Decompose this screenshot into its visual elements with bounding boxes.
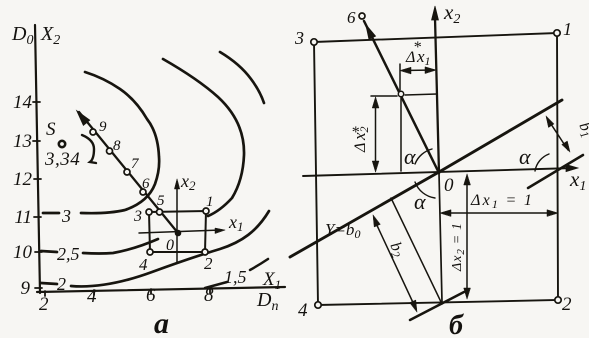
short parallel segment at bottom edge [410,292,464,320]
label b1 (rotated) [574,120,589,141]
contour line 3 [43,72,159,213]
extension vline at x=400 [400,64,401,171]
vertical axis ticks [33,102,42,288]
svg-text:0: 0 [166,237,174,254]
svg-text:9: 9 [99,119,107,135]
x2 axis arrowhead [432,6,439,20]
svg-text:α: α [414,189,426,214]
svg-text:x1: x1 [416,47,431,68]
rectangle corner circles [146,208,209,255]
horizontal axis ticks [45,288,210,296]
contour line 2 [41,211,269,286]
dim line delta*x2 [375,101,377,169]
b1 dimension line [547,118,568,150]
contour fragment innermost top-right [220,52,264,103]
svg-text:10: 10 [13,242,33,263]
svg-text:*: * [351,124,359,141]
svg-text:4: 4 [298,300,308,321]
left plot horizontal axis Dn/X1 [37,287,285,292]
angle arc alpha right [535,154,549,171]
svg-text:Δ: Δ [352,143,369,153]
svg-text:5: 5 [157,193,165,209]
dim line delta x1=1 [443,212,555,214]
center point 0 [175,230,181,236]
svg-text:7: 7 [131,156,140,172]
svg-text:2,5: 2,5 [57,244,80,264]
design rectangle [149,211,206,252]
point S circle [59,141,65,147]
b2 dimension line with arrows [374,219,416,309]
circle on gradient line [398,91,403,96]
gradient arrowhead near 6 [366,25,375,39]
svg-text:2: 2 [562,294,572,315]
short parallel segment at x1 axis right [528,155,583,188]
contour main line Y=b0 [290,100,562,257]
x1 axis [303,168,574,176]
contour line 2,5 [41,239,158,254]
dim line delta*x1 [403,69,434,72]
svg-text:3: 3 [61,206,71,226]
svg-text:а: а [154,307,169,338]
point circles on gradient line [90,129,163,215]
svg-text:6: 6 [347,8,356,27]
y tick labels [13,92,33,299]
svg-text:2: 2 [57,274,66,294]
mini x2 axis [176,183,178,262]
svg-text:D0: D0 [11,23,33,48]
svg-text:2: 2 [39,294,49,315]
svg-text:14: 14 [13,92,33,113]
svg-text:x1: x1 [228,212,244,234]
svg-text:Dп: Dп [256,289,278,314]
svg-text:13: 13 [13,131,32,152]
contour line second (unlabeled) [163,59,244,216]
svg-text:11: 11 [14,207,32,228]
svg-text:Δx2 = 1: Δx2 = 1 [450,222,467,272]
x1 axis arrowhead [566,165,578,172]
contour fragment 1,5 [205,259,268,288]
svg-text:6: 6 [142,176,150,192]
svg-text:b1: b1 [574,120,589,141]
dim line delta x2=1 [466,178,468,296]
svg-text:Δx1 = 1: Δx1 = 1 [470,192,534,211]
svg-text:3,34: 3,34 [44,149,80,170]
svg-text:6: 6 [146,285,156,306]
extension hline at y=95 [371,94,437,96]
angle arc alpha lower at O [415,182,435,198]
svg-text:Y=b0: Y=b0 [325,220,360,241]
svg-text:б: б [449,310,464,338]
mini x1 axis [139,230,221,233]
svg-text:S: S [46,119,56,140]
svg-text:3: 3 [133,208,142,225]
svg-text:1: 1 [563,19,572,39]
svg-text:8: 8 [113,138,121,154]
gradient line through 0,5,6,7,8,9 [79,112,178,233]
svg-text:α: α [519,144,531,169]
svg-text:x2: x2 [443,0,460,27]
left plot vertical axis D0/X2 [35,25,40,293]
svg-text:12: 12 [13,169,33,190]
svg-text:0: 0 [444,175,454,196]
svg-text:1: 1 [206,194,214,210]
svg-text:3: 3 [294,28,304,48]
circle point 6 [359,13,365,19]
b2 leader line [391,198,442,304]
label delta x2=1 (rotated) [450,222,467,272]
label delta*x2 (rotated) [350,126,371,153]
gradient direction line [364,21,439,173]
svg-text:α: α [404,144,416,169]
svg-text:8: 8 [204,285,214,306]
svg-text:b2: b2 [385,240,408,261]
small contour arc near S [82,135,96,163]
square edges [314,33,558,305]
svg-text:9: 9 [21,278,31,299]
x2 axis [435,18,439,173]
right square corner circles [311,30,561,308]
svg-text:2: 2 [204,254,213,273]
svg-text:x1: x1 [569,167,586,194]
label b2 (rotated) [385,240,408,261]
svg-text:x2: x2 [180,171,196,193]
svg-text:1,5: 1,5 [224,267,247,287]
svg-text:4: 4 [87,286,97,307]
svg-text:X2: X2 [40,23,60,48]
gradient arrowhead [77,111,90,125]
angle arc alpha upper at O [415,149,432,164]
svg-text:4: 4 [139,255,148,274]
